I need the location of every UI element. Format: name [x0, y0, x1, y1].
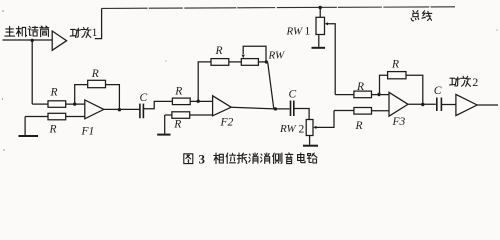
- wire to F3 plus input: [372, 110, 390, 112]
- ground (F1 noninverting): [24, 117, 26, 136]
- resistor R (F3 inverting input): [354, 91, 372, 98]
- wire top bus (总线): [102, 7, 455, 9]
- wire capacitor to 功放2: [441, 104, 456, 106]
- wire F1 noninverting input row: [25, 116, 48, 118]
- op-amp F2: [213, 96, 232, 116]
- wire F3 feedback up: [380, 75, 388, 95]
- wire RW1 wiper to F3 inverting input row: [335, 94, 354, 96]
- capacitor C (after F3): [437, 98, 442, 112]
- op-amp F3: [389, 92, 408, 116]
- resistor R (F3 noninverting input): [354, 108, 372, 115]
- svg-text:R: R: [50, 87, 58, 99]
- wire F2 output: [231, 107, 289, 109]
- wire between R and RW: [229, 61, 242, 63]
- node F3 output junction: [421, 103, 424, 106]
- wire F1 inverting input row: [32, 103, 48, 105]
- node F2 inverting input: [197, 100, 200, 103]
- label 功放 1: [70, 28, 91, 38]
- node F1 inverting input: [73, 102, 76, 105]
- op-amp 功放2 (power amp 2): [456, 94, 477, 115]
- resistor R (F2 inverting input): [172, 98, 190, 105]
- op-amp 功放1 (power amp 1): [52, 31, 66, 50]
- label 主机话筒 (main microphone): [5, 26, 49, 37]
- node mic junction: [31, 39, 34, 42]
- svg-text:R: R: [174, 85, 182, 97]
- svg-text:R: R: [215, 45, 223, 57]
- resistor R (F1 noninverting input): [48, 113, 66, 120]
- svg-text:R: R: [356, 81, 364, 93]
- wire F3 output: [408, 103, 436, 105]
- node F2 output junction: [274, 107, 277, 110]
- svg-text:2: 2: [299, 123, 305, 135]
- wiper of RW1: [327, 24, 336, 95]
- ground (F2 noninverting): [164, 115, 166, 134]
- label 总线 (bus): [411, 11, 432, 21]
- svg-text:F3: F3: [392, 116, 406, 128]
- caption 图 3 相位抵消消侧音电路: [184, 153, 317, 164]
- wire F3 feedback to output: [406, 75, 423, 104]
- wire microphone input line: [3, 39, 53, 41]
- wire 功放1 output to bus riser: [95, 8, 102, 38]
- label 功放 2: [450, 76, 471, 86]
- svg-text:C: C: [434, 85, 442, 97]
- svg-text:RW: RW: [268, 50, 286, 62]
- resistor R (F1 feedback): [88, 80, 106, 87]
- wire F1 output: [104, 108, 140, 110]
- resistor R (F2 feedback): [211, 59, 229, 66]
- node bus to RW1 junction: [319, 6, 322, 9]
- ground (RW2 bottom): [309, 136, 311, 145]
- wire to F2 inverting input: [190, 100, 212, 102]
- wire feedback down to F2 output: [268, 62, 274, 109]
- svg-text:RW: RW: [279, 123, 297, 135]
- svg-text:3: 3: [199, 152, 206, 167]
- wiper of RW2: [315, 111, 334, 128]
- wire final output: [477, 104, 498, 106]
- wire capacitor to F2 input network: [143, 101, 172, 108]
- svg-text:1: 1: [92, 27, 98, 39]
- svg-text:R: R: [173, 118, 181, 130]
- wire RW to output node: [258, 61, 267, 63]
- op-amp F1: [85, 100, 104, 119]
- svg-text:F1: F1: [81, 125, 95, 137]
- node F1 output junction: [118, 108, 121, 111]
- wire F1 feedback to output: [106, 85, 120, 110]
- capacitor C (after F1): [140, 104, 144, 119]
- potentiometer RW2: [306, 120, 313, 136]
- wire capacitor to RW2: [294, 109, 309, 120]
- wire bus to RW1: [319, 8, 321, 18]
- wiper of RW: [243, 46, 266, 62]
- wire F1 feedback up: [75, 85, 88, 105]
- potentiometer RW (F2 feedback trimmer): [241, 59, 258, 66]
- wire resistor to F1 input with junction: [66, 103, 85, 105]
- wire to F2 plus input: [190, 114, 213, 116]
- scan specks: [2, 10, 498, 151]
- svg-text:R: R: [91, 68, 99, 80]
- resistor R (F1 inverting input): [48, 101, 66, 108]
- svg-text:F2: F2: [220, 117, 234, 129]
- svg-text:R: R: [49, 124, 57, 136]
- potentiometer RW1: [316, 17, 325, 34]
- svg-text:R: R: [391, 58, 399, 70]
- capacitor C (after F2): [291, 101, 294, 117]
- svg-text:RW: RW: [286, 26, 304, 38]
- wire F2 noninverting input row: [165, 114, 172, 116]
- svg-text:C: C: [140, 92, 148, 104]
- node RW right end: [265, 60, 268, 63]
- svg-text:2: 2: [472, 75, 478, 89]
- wire mic junction down to F1 input: [31, 40, 33, 104]
- svg-text:1: 1: [305, 26, 311, 38]
- resistor R (F2 noninverting input): [172, 112, 190, 119]
- wire to F1 plus input: [66, 116, 85, 118]
- ground (RW1 bottom): [318, 35, 320, 47]
- node F3 inverting input: [378, 93, 381, 96]
- wire to F3 inverting input: [372, 94, 390, 96]
- wire RW2 wiper to F3 noninverting input row: [334, 110, 354, 112]
- resistor R (F3 feedback): [388, 72, 406, 79]
- svg-text:R: R: [355, 120, 363, 132]
- wire F2 feedback up: [198, 62, 211, 101]
- svg-text:C: C: [289, 89, 297, 101]
